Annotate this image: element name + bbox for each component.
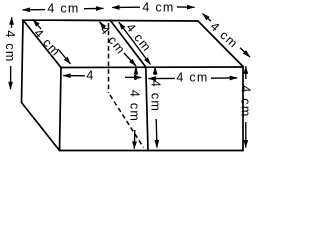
svg-text:4 cm: 4 cm	[176, 70, 208, 84]
svg-text:4 cm: 4 cm	[3, 30, 17, 62]
svg-text:4: 4	[86, 69, 94, 83]
svg-text:4 cm: 4 cm	[148, 80, 162, 112]
svg-text:4 cm: 4 cm	[142, 0, 174, 14]
svg-text:4 cm: 4 cm	[239, 85, 253, 117]
svg-text:4 cm: 4 cm	[128, 90, 142, 122]
svg-text:4 cm: 4 cm	[31, 26, 63, 59]
svg-text:4 cm: 4 cm	[47, 1, 79, 15]
